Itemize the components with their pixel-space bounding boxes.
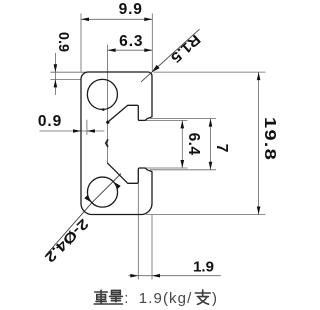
wire extension line 6.4 top xyxy=(146,119,188,121)
label dimension 9.9 xyxy=(119,1,143,19)
hole circle upper 4.2 xyxy=(87,79,117,109)
wire extension line 6.4 bottom xyxy=(146,167,188,169)
wire extension line 0.9 top-left lower xyxy=(50,78,81,80)
wire extension line 9.9/6.3 right xyxy=(151,14,153,72)
wire extension line 7 bottom xyxy=(150,169,216,171)
dimension 9.9 line xyxy=(81,18,152,20)
wire extension line 9.9 left xyxy=(80,14,82,72)
wire extension line 1.9 left xyxy=(137,184,139,280)
dimension 6.4 line xyxy=(181,120,183,168)
hole circle lower 4.2 xyxy=(87,177,117,207)
label radius R1.5 rotated xyxy=(168,31,204,66)
wire extension line 0.9 top-left upper xyxy=(50,71,87,73)
wire extension line 19.8 bottom xyxy=(146,214,266,216)
wire extension line 1.9 right xyxy=(151,215,153,280)
junction node at upper circle bottom xyxy=(102,108,105,111)
caption glyph ZHONG (weight) xyxy=(94,290,108,304)
wire extension line 19.8 top xyxy=(154,71,266,73)
zigzag break on slot wall extension xyxy=(106,140,108,147)
label dimension 0.9 mid-left xyxy=(38,113,62,131)
label 2-PHI4.2 rotated xyxy=(42,216,92,266)
dimension 0.9 vertical top-left line xyxy=(54,53,56,95)
wire extension line 0.9 mid (circle tangent) xyxy=(86,120,88,135)
label dimension 7 rotated xyxy=(212,143,230,152)
label dimension 19.8 rotated xyxy=(260,117,278,161)
dimension 19.8 line xyxy=(258,72,260,214)
dimension 1.9 line xyxy=(129,275,221,277)
label dimension 6.3 xyxy=(119,33,143,51)
caption glyph LIANG (amount) xyxy=(109,290,122,304)
leader R1.5 xyxy=(141,29,200,82)
leader 2-PHI4.2 tail xyxy=(46,203,92,255)
wire extension line 7 top xyxy=(150,118,216,120)
wire extension line 6.3 left (through profile, to slot wall) xyxy=(107,45,109,164)
caption weight text xyxy=(124,290,128,307)
junction node at slot wall top xyxy=(106,121,109,124)
label dimension 6.4 rotated xyxy=(184,132,202,155)
caption glyph ZHI (piece) xyxy=(195,290,210,305)
profile outline of extrusion cross-section xyxy=(81,72,152,215)
dimension 7 line xyxy=(210,119,212,170)
leader 2-PHI4.2 diameter chord xyxy=(92,182,113,203)
label dimension 1.9 xyxy=(193,259,214,276)
label dimension 0.9 rotated top-left xyxy=(55,32,71,52)
dimension 0.9 horizontal mid-left line xyxy=(40,130,105,132)
dimension 6.3 line xyxy=(108,49,153,51)
